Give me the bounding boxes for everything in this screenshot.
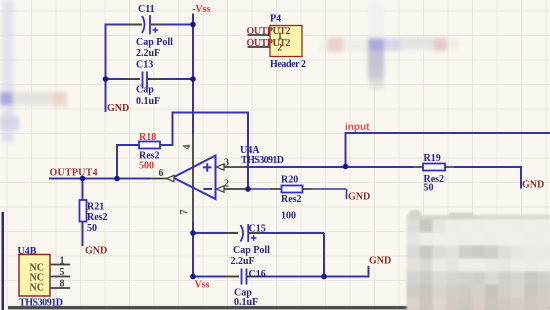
svg-text:7: 7 <box>179 210 190 215</box>
svg-text:0.1uF: 0.1uF <box>136 96 160 107</box>
svg-text:3: 3 <box>224 158 229 169</box>
svg-text:OUTPUT2: OUTPUT2 <box>247 38 291 49</box>
svg-text:2: 2 <box>278 43 283 53</box>
svg-text:THS3091D: THS3091D <box>241 155 284 166</box>
svg-text:2.2uF: 2.2uF <box>136 48 160 59</box>
svg-text:OUTPUT4: OUTPUT4 <box>50 168 98 179</box>
svg-text:C13: C13 <box>136 60 153 71</box>
svg-text:2: 2 <box>224 179 229 190</box>
svg-text:P4: P4 <box>270 14 281 25</box>
svg-text:GND: GND <box>107 103 129 114</box>
svg-text:THS3091D: THS3091D <box>19 298 63 309</box>
svg-text:C16: C16 <box>249 269 266 280</box>
svg-text:C11: C11 <box>138 4 155 15</box>
svg-text:R18: R18 <box>139 132 156 143</box>
svg-text:1: 1 <box>278 32 283 42</box>
svg-text:GND: GND <box>348 192 370 203</box>
svg-text:U4B: U4B <box>18 246 37 257</box>
svg-text:2.2uF: 2.2uF <box>231 256 255 267</box>
svg-text:1: 1 <box>60 256 65 267</box>
svg-text:Cap Poll: Cap Poll <box>233 245 270 256</box>
svg-text:input: input <box>345 122 370 133</box>
svg-text:C15: C15 <box>249 224 266 235</box>
svg-text:R20: R20 <box>281 175 298 186</box>
svg-text:GND: GND <box>369 256 391 267</box>
svg-text:Res2: Res2 <box>281 194 302 205</box>
svg-text:5: 5 <box>60 267 65 278</box>
svg-text:Header 2: Header 2 <box>270 59 306 70</box>
svg-text:0.1uF: 0.1uF <box>234 297 258 308</box>
svg-text:8: 8 <box>60 279 65 290</box>
svg-text:-Vss: -Vss <box>192 4 210 15</box>
svg-text:R19: R19 <box>424 153 441 164</box>
svg-text:GND: GND <box>85 246 107 257</box>
svg-text:R21: R21 <box>87 202 104 213</box>
svg-text:GND: GND <box>522 180 544 191</box>
svg-text:500: 500 <box>139 160 154 171</box>
svg-text:Cap: Cap <box>136 85 154 96</box>
svg-text:4: 4 <box>182 145 193 150</box>
svg-text:50: 50 <box>87 223 97 234</box>
svg-text:100: 100 <box>281 211 296 222</box>
svg-text:Cap Poll: Cap Poll <box>136 37 173 48</box>
svg-text:Vss: Vss <box>195 280 210 291</box>
svg-text:NC: NC <box>30 283 44 294</box>
svg-text:Res2: Res2 <box>87 212 108 223</box>
svg-text:6: 6 <box>159 168 164 179</box>
svg-text:50: 50 <box>424 183 434 194</box>
svg-text:OUTPUT2: OUTPUT2 <box>247 26 291 37</box>
